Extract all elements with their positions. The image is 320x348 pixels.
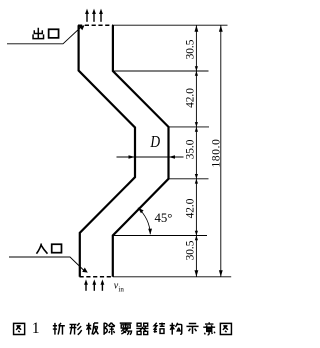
caption 构 — [170, 323, 182, 335]
caption 结 — [154, 323, 165, 334]
rukou leader — [9, 257, 85, 271]
inner dim arrow pair y179 — [195, 174, 198, 179]
inner dimension line — [195, 25, 197, 277]
arc arrowhead top — [138, 208, 144, 213]
inner dim arrow pair y127 — [195, 122, 198, 127]
rukou leader arrowhead — [82, 268, 88, 273]
outer dim arrow top — [219, 25, 223, 32]
caption 器 — [136, 323, 148, 334]
inner dim arrow pair y235 — [195, 231, 198, 236]
extension line y127 — [169, 126, 210, 128]
caption 雾 — [120, 323, 132, 335]
label rukou 入口 — [36, 243, 47, 253]
top extension line — [113, 24, 228, 26]
chukou leader — [7, 28, 81, 44]
caption 意 — [203, 322, 215, 335]
outlet dashed line — [78, 24, 113, 26]
outer dimension line 180.0 — [220, 25, 222, 277]
D arrow left — [129, 155, 136, 159]
bottom boundary line — [113, 276, 231, 278]
svg-text:180.0: 180.0 — [211, 139, 223, 168]
right plate wall — [113, 25, 169, 277]
outer dim arrow bottom — [219, 270, 223, 277]
chukou leader arrowhead — [79, 25, 85, 30]
caption 板 — [86, 323, 98, 335]
inner dim arrow bottom — [195, 270, 199, 277]
caption 图2 — [220, 323, 231, 334]
arc arrowhead bottom — [148, 229, 152, 235]
caption 示 — [186, 324, 198, 334]
caption 图 — [14, 323, 25, 334]
D dimension line — [117, 156, 184, 158]
extension line y71 — [113, 70, 209, 72]
label chukou 出口 — [33, 28, 43, 39]
caption 除 — [104, 323, 115, 335]
svg-text:D: D — [149, 134, 160, 151]
svg-text:in: in — [118, 286, 124, 294]
svg-text:42.0: 42.0 — [185, 198, 197, 218]
svg-text:1: 1 — [32, 320, 40, 337]
caption 形 — [70, 323, 82, 335]
extension line y235 — [113, 235, 207, 237]
D arrow right — [169, 155, 176, 159]
top outlet flow arrows — [87, 13, 101, 22]
left plate wall — [79, 25, 135, 277]
svg-text:30.5: 30.5 — [185, 240, 197, 260]
svg-text:42.0: 42.0 — [185, 88, 197, 108]
caption 折 — [53, 323, 65, 335]
inlet dashed line — [80, 276, 114, 278]
bottom flow arrows — [86, 284, 102, 291]
extension line y178 — [169, 178, 209, 180]
svg-text:35.0: 35.0 — [185, 139, 197, 159]
45 degree arc — [138, 208, 150, 234]
svg-text:45°: 45° — [154, 211, 172, 225]
svg-text:30.5: 30.5 — [185, 39, 197, 59]
inner dim arrow pair y71 — [195, 66, 198, 71]
inner dim arrow top — [195, 25, 199, 32]
